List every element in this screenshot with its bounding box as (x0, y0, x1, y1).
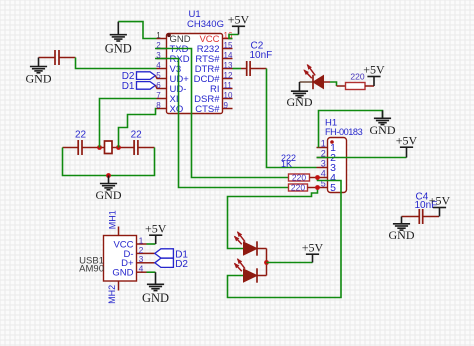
svg-text:220: 220 (291, 182, 305, 192)
svg-text:CH340G: CH340G (187, 19, 224, 30)
svg-text:+5V: +5V (145, 221, 167, 235)
svg-text:+5V: +5V (228, 13, 250, 27)
svg-text:D2: D2 (175, 259, 188, 270)
svg-text:FH-00183: FH-00183 (325, 127, 363, 137)
svg-text:GND: GND (96, 188, 122, 202)
svg-text:+5V: +5V (429, 194, 451, 208)
svg-text:14: 14 (224, 51, 233, 60)
svg-text:XO: XO (170, 104, 184, 115)
svg-text:22: 22 (75, 129, 87, 140)
svg-text:6: 6 (156, 81, 161, 90)
svg-text:22: 22 (131, 129, 143, 140)
svg-text:4: 4 (156, 61, 161, 70)
svg-text:+5V: +5V (302, 240, 324, 254)
svg-text:9: 9 (224, 101, 229, 110)
svg-text:GND: GND (142, 291, 169, 305)
svg-text:AM90: AM90 (79, 263, 104, 274)
svg-text:10nF: 10nF (250, 50, 273, 61)
svg-text:7: 7 (156, 91, 161, 100)
svg-text:3: 3 (321, 159, 326, 169)
svg-text:GND: GND (370, 123, 396, 137)
svg-text:1K: 1K (281, 159, 292, 169)
svg-text:4: 4 (139, 264, 144, 274)
svg-text:5: 5 (330, 182, 336, 194)
svg-text:MH1: MH1 (108, 210, 118, 229)
svg-text:GND: GND (112, 268, 133, 279)
svg-text:1: 1 (321, 139, 326, 149)
svg-text:GND: GND (389, 228, 415, 242)
svg-text:220: 220 (292, 172, 306, 182)
svg-text:CTS#: CTS# (195, 104, 220, 115)
svg-text:1: 1 (156, 31, 161, 40)
svg-text:13: 13 (224, 61, 233, 70)
svg-text:+5V: +5V (396, 133, 418, 147)
svg-text:15: 15 (224, 41, 233, 50)
svg-text:D1: D1 (122, 81, 135, 92)
svg-text:11: 11 (224, 81, 233, 90)
svg-text:12: 12 (224, 71, 233, 80)
svg-text:10: 10 (224, 91, 233, 100)
svg-text:+5V: +5V (363, 63, 385, 77)
svg-text:GND: GND (26, 72, 52, 86)
svg-text:GND: GND (287, 95, 313, 109)
svg-text:5: 5 (156, 71, 161, 80)
svg-text:8: 8 (156, 101, 161, 110)
svg-text:GND: GND (105, 41, 132, 55)
svg-text:4: 4 (321, 169, 326, 179)
svg-text:MH2: MH2 (107, 285, 117, 304)
